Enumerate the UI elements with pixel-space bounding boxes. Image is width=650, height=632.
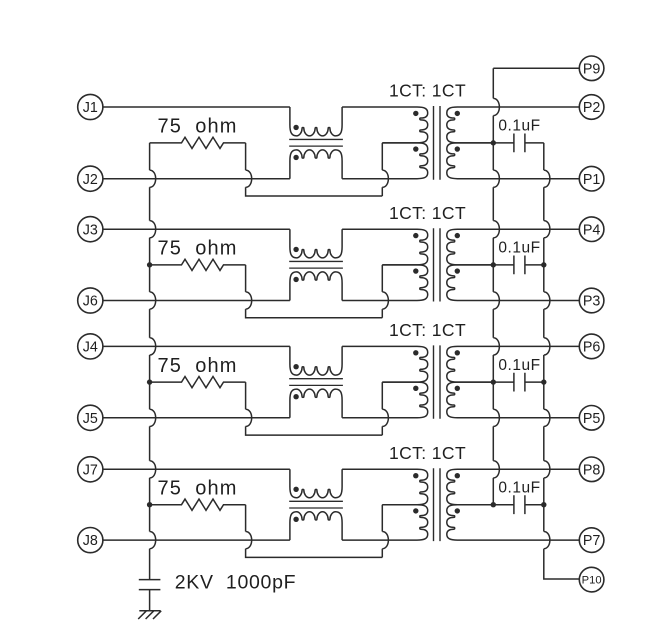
common-mode choke CM4 top winding	[290, 469, 342, 497]
choke CM1 core	[289, 139, 343, 146]
transformer T3 primary bottom half	[342, 382, 428, 418]
T3 dot primary bottom	[413, 386, 418, 391]
svg-text:P5: P5	[583, 411, 601, 427]
transformer T3 core	[434, 345, 441, 418]
T2 dot secondary bottom	[455, 268, 460, 273]
wire T4 primary centre tap down	[382, 505, 388, 558]
choke CM3 top dot	[293, 364, 298, 369]
svg-text:1CT: 1CT: 1CT: 1CT	[389, 320, 466, 340]
svg-text:1CT: 1CT: 1CT: 1CT	[389, 443, 466, 463]
capacitor C4 0.1uF	[493, 495, 544, 514]
pin P1	[579, 166, 604, 191]
wire T1 primary centre tap down	[382, 143, 388, 196]
resistor R2 75 ohm	[150, 259, 246, 270]
T2 dot secondary top	[455, 233, 460, 238]
T1 dot primary top	[413, 111, 418, 116]
junction rail to R3	[147, 379, 152, 384]
choke CM3 core	[289, 379, 343, 386]
transformer T3 secondary bottom half	[447, 382, 580, 418]
svg-text:2KV 1000pF: 2KV 1000pF	[175, 572, 297, 594]
transformer T4 core	[434, 468, 441, 541]
transformer T2 secondary bottom half	[447, 265, 580, 301]
capacitor C3 0.1uF	[493, 373, 544, 392]
svg-text:75 ohm: 75 ohm	[158, 116, 238, 138]
transformer T4 primary bottom half	[342, 505, 428, 540]
svg-text:J3: J3	[83, 222, 98, 238]
common-mode choke CM2 bottom winding	[290, 272, 342, 301]
jack J6	[78, 288, 103, 313]
jack J5	[78, 405, 103, 430]
choke CM4 top dot	[293, 487, 298, 492]
T4 dot secondary top	[455, 473, 460, 478]
T4 dot secondary bottom	[455, 508, 460, 513]
junction rail1 T4 centre tap	[491, 502, 496, 507]
resistor R4 75 ohm	[150, 499, 246, 510]
transformer T1 secondary top half	[447, 107, 580, 143]
transformer T2 primary top half	[342, 229, 428, 265]
svg-text:0.1uF: 0.1uF	[498, 357, 540, 374]
common-mode choke CM3 bottom winding	[290, 389, 342, 418]
pin P5	[579, 406, 604, 431]
ground	[138, 611, 161, 619]
junction rail1 T2 centre tap	[491, 262, 496, 267]
T1 dot primary bottom	[413, 146, 418, 151]
wire common termination rail	[150, 143, 156, 580]
common-mode choke CM3 top winding	[290, 346, 342, 375]
svg-text:J4: J4	[83, 340, 98, 356]
common-mode choke CM1 top winding	[290, 107, 342, 136]
pin P2	[579, 95, 604, 120]
choke CM2 core	[289, 261, 343, 268]
svg-text:J1: J1	[83, 100, 98, 116]
svg-text:J2: J2	[83, 172, 98, 188]
T4 dot primary bottom	[413, 508, 418, 513]
transformer T1 primary bottom half	[342, 143, 428, 179]
wire R2 right leg to return line	[246, 265, 383, 318]
svg-text:P3: P3	[583, 294, 601, 310]
transformer T1 core	[434, 106, 441, 180]
junction rail2 C4	[541, 502, 546, 507]
pin P9	[579, 56, 604, 81]
pin P8	[579, 457, 604, 482]
choke CM3 bottom dot	[293, 394, 298, 399]
svg-text:P4: P4	[583, 222, 601, 238]
transformer T4 secondary top half	[447, 469, 580, 504]
svg-text:P1: P1	[583, 172, 601, 188]
capacitor 2KV 1000pF	[139, 580, 161, 611]
common-mode choke CM4 bottom winding	[290, 512, 342, 540]
wire J2 to choke L1 bottom	[103, 178, 290, 180]
wire J4 to choke L3 top	[103, 345, 290, 347]
svg-text:75 ohm: 75 ohm	[158, 355, 238, 377]
wire R3 right leg to return line	[246, 382, 383, 435]
jack J7	[78, 457, 103, 482]
svg-text:75 ohm: 75 ohm	[158, 238, 238, 260]
transformer T1 secondary bottom half	[447, 143, 580, 179]
junction rail2 C2	[541, 262, 546, 267]
T3 dot secondary top	[455, 350, 460, 355]
wire J7 to choke L4 top	[103, 468, 290, 470]
svg-text:J5: J5	[83, 411, 98, 427]
transformer T2 secondary top half	[447, 229, 580, 265]
wire J5 to choke L3 bottom	[103, 417, 290, 419]
junction rail2 C3	[541, 379, 546, 384]
svg-text:0.1uF: 0.1uF	[498, 240, 540, 257]
wire rail P9 to centre taps	[493, 68, 579, 504]
T4 dot primary top	[413, 473, 418, 478]
transformer T4 primary top half	[342, 469, 428, 504]
wire rail caps to P10	[544, 143, 580, 579]
pin P4	[579, 217, 604, 242]
transformer T1 primary top half	[342, 107, 428, 143]
choke CM4 bottom dot	[293, 517, 298, 522]
wire R4 right leg to return line	[246, 505, 383, 558]
svg-text:P9: P9	[583, 61, 601, 77]
svg-text:P10: P10	[582, 574, 602, 586]
wire J1 to choke L1 top	[103, 106, 290, 108]
wire T3 primary centre tap down	[382, 382, 388, 435]
transformer T2 primary bottom half	[342, 265, 428, 301]
pin P6	[579, 334, 604, 359]
choke CM2 top dot	[293, 247, 298, 252]
svg-text:J8: J8	[83, 533, 98, 549]
junction rail1 T1 centre tap	[491, 140, 496, 145]
choke CM4 core	[289, 501, 343, 508]
pin P10	[579, 567, 604, 592]
T1 dot secondary bottom	[455, 146, 460, 151]
svg-text:P6: P6	[583, 340, 601, 356]
svg-text:P2: P2	[583, 100, 601, 116]
resistor R1 75 ohm	[150, 137, 246, 148]
pin P3	[579, 288, 604, 313]
transformer T3 primary top half	[342, 346, 428, 382]
svg-text:1CT: 1CT: 1CT: 1CT	[389, 203, 466, 223]
svg-text:P8: P8	[583, 462, 601, 478]
wire J3 to choke L2 top	[103, 228, 290, 230]
svg-text:75 ohm: 75 ohm	[158, 478, 238, 500]
jack J4	[78, 334, 103, 359]
capacitor C2 0.1uF	[493, 255, 544, 274]
choke CM2 bottom dot	[293, 277, 298, 282]
svg-text:0.1uF: 0.1uF	[498, 479, 540, 496]
wire T2 primary centre tap down	[382, 265, 388, 318]
pin P7	[579, 528, 604, 553]
svg-text:1CT: 1CT: 1CT: 1CT	[389, 81, 466, 101]
junction rail to R4	[147, 502, 152, 507]
svg-text:J7: J7	[83, 462, 98, 478]
T1 dot secondary top	[455, 111, 460, 116]
choke CM1 bottom dot	[293, 155, 298, 160]
common-mode choke CM1 bottom winding	[290, 150, 342, 179]
common-mode choke CM2 top winding	[290, 229, 342, 258]
transformer T2 core	[434, 228, 441, 301]
jack J8	[78, 528, 103, 553]
transformer T3 secondary top half	[447, 346, 580, 382]
wire J6 to choke L2 bottom	[103, 300, 290, 302]
jack J1	[78, 94, 103, 119]
choke CM1 top dot	[293, 125, 298, 130]
resistor R3 75 ohm	[150, 377, 246, 388]
wire R1 right leg to return line	[246, 143, 383, 196]
capacitor C1 0.1uF	[493, 133, 544, 152]
T2 dot primary bottom	[413, 268, 418, 273]
jack J2	[78, 166, 103, 191]
T3 dot secondary bottom	[455, 386, 460, 391]
junction rail1 T3 centre tap	[491, 379, 496, 384]
T2 dot primary top	[413, 233, 418, 238]
svg-text:J6: J6	[83, 294, 98, 310]
svg-text:P7: P7	[583, 533, 601, 549]
transformer T4 secondary bottom half	[447, 505, 580, 540]
T3 dot primary top	[413, 350, 418, 355]
wire J8 to choke L4 bottom	[103, 539, 290, 541]
jack J3	[78, 217, 103, 242]
svg-text:0.1uF: 0.1uF	[498, 118, 540, 135]
junction rail to R2	[147, 262, 152, 267]
